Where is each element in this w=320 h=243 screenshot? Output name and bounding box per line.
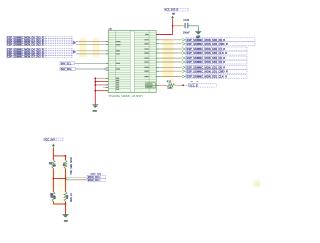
svg-text:ESP_SDMMC_MON_SD0_D2_R: ESP_SDMMC_MON_SD0_D2_R (187, 56, 226, 60)
op IC U5 body (108, 31, 156, 93)
net label ESP_SDMMC_MON_D6_3V3_R (7, 52, 72, 56)
R43 labels (50, 193, 52, 198)
junction VCC_SDIO (182, 84, 184, 86)
global label arrow ESP_SDMMC_MON_SD0_CLK_R (182, 52, 185, 55)
net label ESP_SDMMC_MON_SD0_D3_R (186, 60, 247, 64)
net label ESP_SDMMC_MON_SD0_D1_R (186, 47, 247, 51)
global label arrow ESP_SDMMC_MON_SD0_D1_R (182, 48, 185, 51)
U5 stub nc (103, 87, 108, 89)
wire left rail lower (52, 179, 54, 192)
junction bottom (65, 203, 67, 205)
wire BAV_SDA to U5 (76, 68, 104, 70)
svg-text:VCC_E: VCC_E (189, 84, 198, 87)
wire VCC to C59 (173, 25, 185, 27)
net label VCC_3V3_E (164, 8, 188, 11)
wire right rail mid (65, 169, 67, 179)
resistor R41 (52, 160, 55, 168)
wire divider tap lower (66, 179, 87, 181)
wire divider tap upper (66, 177, 87, 179)
wire U5 to ESP_SDMMC_MON_SD0_D0_R (159, 39, 182, 41)
junction mid right (65, 178, 67, 180)
svg-text:ESP_SDMMC_MON_SD0_D0_R: ESP_SDMMC_MON_SD0_D0_R (187, 38, 226, 42)
wire down to GND (197, 26, 199, 32)
wire U5 pin OE (95, 77, 108, 79)
svg-text:MON_CK1: MON_CK1 (88, 179, 100, 182)
wire left rail upper (52, 156, 54, 160)
power flag VCC top (172, 16, 174, 19)
net label ESP_SDMMC_MON_SD1_CMD_R (186, 69, 247, 73)
U5 right pin names (145, 34, 149, 35)
net label ESP_SDMMC_MON_SD1_CLK_R (186, 75, 247, 79)
svg-text:ESP_SDMMC_MON_SD1_D0_R: ESP_SDMMC_MON_SD1_D0_R (187, 65, 226, 69)
junction VCC/C59 (172, 25, 174, 27)
svg-text:ESP_SDMMC_MON_SD1_CMD_R: ESP_SDMMC_MON_SD1_CMD_R (187, 69, 228, 73)
svg-text:ESP_SDMMC_MON_D7_3V3_R: ESP_SDMMC_MON_D7_3V3_R (7, 55, 44, 59)
svg-text:BAV_SCL: BAV_SCL (61, 62, 72, 65)
wire right rail bottom (65, 202, 67, 205)
net label ESP_SDMMC_MON_D4_3V3_R (7, 48, 72, 52)
net label ESP_SDMMC_MON_SD0_D2_R (186, 56, 247, 60)
wire U5 pin GND3 (95, 90, 108, 92)
net label ESP_SDMMC_MON_D3_3V3_R (7, 42, 72, 46)
net label ESP_SDMMC_MON_D0_3V3_R (7, 36, 72, 40)
junction rail 2 (94, 81, 96, 83)
pin number speck above first label (196, 37, 199, 38)
ground GND divider (63, 215, 69, 218)
junction divider top right (65, 155, 67, 157)
net label ESP_SDMMC_MON_D2_3V3_R (7, 40, 72, 44)
wire left rail bottom (52, 202, 54, 205)
wire MON_D3 to U5 (76, 44, 108, 46)
net label MON_CK0 (87, 175, 105, 179)
wire MON_D7 to U5 (76, 53, 108, 55)
wire U5 to ESP_SDMMC_MON_SD1_D0_R (159, 66, 182, 68)
U5 left pin names (116, 41, 120, 42)
pin decoration diamond (104, 67, 109, 71)
highlight wash left bus area (80, 38, 87, 57)
global label arrow ESP_SDMMC_MON_SD1_CLK_R (182, 75, 185, 78)
wire right rail upper (65, 156, 67, 160)
net label BAV_SDA (60, 68, 76, 72)
wire MON_D5 to U5 (76, 50, 108, 52)
junction mid left (53, 178, 55, 180)
wire divider bottom (53, 203, 65, 205)
highlight wash divider rails (52, 148, 55, 205)
junction rail 3 (94, 84, 96, 86)
wire to ground (65, 204, 67, 215)
svg-text:ESP_SDMMC_MON_SD0_D1_R: ESP_SDMMC_MON_SD0_D1_R (187, 47, 226, 51)
svg-text:ESP_SDMMC_MON_SD0_CLK_R: ESP_SDMMC_MON_SD0_CLK_R (187, 51, 228, 55)
R41 labels (49, 162, 52, 164)
wire BAV_SCL to U5 (75, 62, 108, 64)
small text above MCK labels (91, 173, 96, 174)
junction rail top (94, 77, 96, 79)
ground text (93, 110, 97, 112)
svg-text:R15: R15 (167, 82, 172, 84)
resistor R15 (167, 84, 175, 87)
U5 inner columns (115, 31, 117, 92)
net label VCC_SDIO (188, 81, 216, 87)
wire MON_D1 to U5 (76, 41, 108, 43)
svg-text:VCC_3V3_E: VCC_3V3_E (165, 9, 179, 12)
wire VCC down (172, 19, 174, 34)
net label ESP_SDMMC_MON_SD0_CLK_R (186, 51, 247, 55)
svg-text:C159: C159 (183, 19, 189, 22)
svg-text:SEN_LO: SEN_LO (71, 193, 73, 202)
global label arrow ESP_SDMMC_MON_SD0_D0_R (182, 38, 185, 41)
wire U5 VCC pin (156, 34, 172, 36)
artifact (253, 179, 261, 187)
ground GND top right (195, 31, 201, 34)
wire U5 to ESP_SDMMC_MON_SD0_CLK_R (159, 52, 182, 54)
svg-text:VCC_3V3: VCC_3V3 (44, 138, 55, 141)
wire U5 to R15 (159, 84, 167, 86)
net label ESP_SDMMC_MON_SD0_CMD_R (186, 42, 255, 46)
wire VCC to divider (52, 148, 54, 156)
wire U5 to ESP_SDMMC_MON_SD0_CMD_R (159, 43, 182, 45)
wire R15 to VCC_SDIO (175, 84, 183, 86)
wire U5 to ESP_SDMMC_MON_SD0_D1_R (159, 48, 182, 50)
svg-text:VDD_SEN_MON: VDD_SEN_MON (71, 157, 73, 175)
global label arrow ESP_SDMMC_MON_SD1_D0_R (182, 66, 185, 69)
wire divider mid (53, 178, 65, 180)
highlight wash right bus area (163, 39, 174, 78)
ground GND left (92, 105, 98, 108)
wire U5 to ESP_SDMMC_MON_SD0_D3_R (159, 61, 182, 63)
U5 no-connect cells (145, 83, 155, 86)
U5 pin table grid (109, 33, 156, 89)
net label ESP_SDMMC_MON_SD1_D0_R (186, 65, 247, 69)
net label ESP_SDMMC_MON_D7_3V3_R (7, 55, 72, 59)
wire U5 pin GND2 (95, 84, 108, 86)
wire C159 to GND (188, 25, 199, 27)
wire right rail lower (65, 179, 67, 192)
ground text (64, 220, 68, 222)
svg-text:ESP_SDMMC_MON_SD1_CLK_R: ESP_SDMMC_MON_SD1_CLK_R (187, 75, 228, 79)
wire U5 to ESP_SDMMC_MON_SD1_CMD_R (159, 70, 182, 72)
global label arrow ESP_SDMMC_MON_SD0_CMD_R (182, 42, 185, 45)
VCC net name speck (172, 13, 175, 15)
label arrow VCC_SDIO (184, 84, 188, 86)
wire divider top (53, 155, 65, 157)
svg-text:ESP_SDMMC_MON_SD0_CMD_R: ESP_SDMMC_MON_SD0_CMD_R (187, 42, 228, 46)
bus entry group 1 (73, 41, 76, 45)
svg-text:BAV_SDA: BAV_SDA (61, 68, 72, 71)
U5 pin stubs right (156, 35, 159, 86)
power flag VCC divider (53, 144, 55, 147)
global label arrow ESP_SDMMC_MON_SD1_CMD_R (182, 70, 185, 73)
svg-text:ESP_SDMMC_MON_SD0_D3_R: ESP_SDMMC_MON_SD0_D3_R (187, 60, 226, 64)
svg-text:ESP_SDMMC_MON_D3_3V3_R: ESP_SDMMC_MON_D3_3V3_R (7, 42, 44, 46)
net label ESP_SDMMC_MON_D5_3V3_R (7, 50, 72, 54)
resistor R42 (64, 160, 67, 168)
resistor R43 (52, 192, 55, 202)
wire U5 to ESP_SDMMC_MON_SD0_D2_R (159, 57, 182, 59)
wire left rail mid (52, 169, 54, 179)
bus entry group 2 (73, 50, 76, 54)
U5 pin stubs left (106, 42, 108, 91)
global label arrow ESP_SDMMC_MON_SD0_D2_R (182, 57, 185, 60)
svg-text:4.7K: 4.7K (167, 87, 172, 90)
wire GND rail left (94, 78, 96, 104)
net label BAV_SCL (60, 62, 75, 66)
net label VCC_3V3 (44, 138, 63, 141)
svg-text:TXS0108E_SDMMC_LVLSHIFT: TXS0108E_SDMMC_LVLSHIFT (108, 95, 143, 98)
net label MON_CK1 (87, 178, 105, 182)
global label arrow ESP_SDMMC_MON_SD0_D3_R (182, 61, 185, 64)
resistor R44 (64, 192, 67, 202)
net label ESP_SDMMC_MON_SD0_D0_R (186, 38, 255, 42)
R42 labels (63, 163, 65, 166)
capacitor C59 (185, 23, 188, 28)
net label ESP_SDMMC_MON_D1_3V3_R (7, 38, 72, 42)
wire U5 pin GND1 (95, 81, 108, 83)
R44 labels (66, 195, 68, 198)
svg-text:100nF: 100nF (183, 31, 190, 34)
junction rail 4 (94, 90, 96, 92)
ground text (196, 36, 200, 38)
wire U5 to ESP_SDMMC_MON_SD1_CLK_R (159, 76, 182, 78)
